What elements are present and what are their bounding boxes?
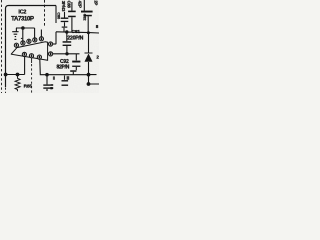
pin 2 [21, 41, 25, 45]
pin 7 (top right) [49, 42, 53, 46]
wire bottom bus left [6, 74, 25, 76]
pin 10 [29, 54, 33, 58]
wire pin9 drop [24, 57, 26, 75]
svg-text:C81: C81 [72, 29, 81, 35]
pin 9 [22, 52, 26, 56]
wire pin11 drop [40, 59, 89, 74]
capacitor C93 [64, 76, 66, 80]
pin digits [16, 37, 52, 58]
svg-text:82P/N: 82P/N [57, 65, 70, 71]
wire box left edge dashed continuation [5, 88, 7, 94]
resistor R85 [15, 76, 20, 91]
node C81 bottom junction [65, 52, 68, 55]
wire pin8 output [53, 53, 80, 55]
wire pin5 stub [40, 30, 42, 37]
svg-text:42P: 42P [78, 1, 83, 8]
node box edge junction [4, 73, 8, 77]
wire dashed shield border left [1, 0, 3, 93]
wire dashed vertical top [44, 0, 46, 28]
pin number marks above circles [14, 38, 22, 40]
svg-text:C88: C88 [67, 1, 72, 9]
pin 8 (bottom right) [49, 52, 53, 56]
svg-text:C80: C80 [57, 12, 62, 19]
wire lower right bus [89, 75, 100, 84]
node bottom right junction [87, 82, 91, 86]
svg-text:3P/43: 3P/43 [61, 1, 66, 12]
svg-text:TA7310P: TA7310P [11, 16, 34, 22]
svg-text:IC2: IC2 [18, 10, 26, 16]
node ground junction [21, 26, 25, 30]
svg-text:8: 8 [96, 24, 99, 29]
node mid bus right junction [87, 31, 90, 34]
svg-text:R85: R85 [24, 83, 33, 89]
capacitor C84 value smudge [51, 84, 54, 89]
node diode bottom junction [87, 73, 91, 77]
capacitor C84 [46, 75, 48, 91]
capacitor C81 [66, 32, 68, 54]
svg-text:220P/N: 220P/N [67, 36, 83, 42]
node C84 junction [45, 73, 49, 77]
pin 11 [37, 55, 41, 59]
svg-text:C82: C82 [82, 14, 87, 22]
op-amp U1 wedge body [11, 42, 47, 61]
capacitor C79 column [71, 2, 73, 32]
pin 5 [39, 37, 43, 41]
op-amp U1 box outline (IC2 outer box) [6, 6, 57, 88]
pin 1 [14, 43, 18, 47]
wire pin7 to box edge [53, 43, 56, 45]
capacitor C82 [84, 0, 88, 32]
pin 3 [27, 39, 31, 43]
capacitor C92 [75, 54, 77, 70]
node R85 junction [16, 73, 20, 77]
wire C92 to diode [72, 72, 74, 75]
capacitor C80 trimmer [63, 12, 66, 32]
svg-text:2: 2 [96, 54, 99, 59]
wire mid bus [56, 32, 99, 33]
wire pin2 riser [22, 28, 24, 41]
pin 4 [33, 38, 37, 42]
wire ground bus [16, 27, 35, 29]
node C81 top junction [65, 30, 68, 33]
ground [12, 28, 18, 37]
diode D8 varactor [85, 33, 93, 75]
svg-text:2P: 2P [93, 0, 98, 5]
wire pin10 dashed drop [31, 58, 33, 63]
wire box right edge lower [55, 32, 57, 44]
wire pin4 riser [34, 28, 36, 38]
wire box right edge upper [55, 6, 57, 24]
